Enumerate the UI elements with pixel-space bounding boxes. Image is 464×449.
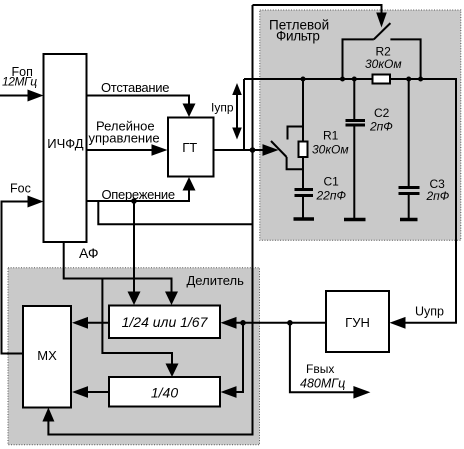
- wire drop from Опережение line to vertical bus: [98, 201, 252, 224]
- svg-text:C2: C2: [374, 106, 390, 120]
- svg-text:22пФ: 22пФ: [316, 189, 347, 203]
- wire filter main line and Uупр to ГУН: [244, 79, 456, 329]
- svg-text:МХ: МХ: [37, 348, 57, 363]
- svg-text:Fвых: Fвых: [306, 362, 334, 376]
- svg-text:R1: R1: [323, 129, 339, 143]
- wire АФ output (ИЧФД bottom to 1/24): [64, 242, 178, 305]
- wire Отставание (lag output to ГТ top): [87, 80, 196, 117]
- wire 1/40 output to МХ: [72, 386, 109, 398]
- svg-text:Отставание: Отставание: [101, 80, 169, 95]
- node Fвых branch: [287, 320, 293, 326]
- divider panel (Делитель): [8, 268, 260, 445]
- block divider 1/40: [109, 377, 220, 407]
- block ИЧФД (phase-frequency detector): [44, 54, 87, 242]
- node 1/40 branch: [240, 320, 246, 326]
- svg-text:ИЧФД: ИЧФД: [47, 136, 83, 151]
- wire branch to 1/40 input: [221, 323, 244, 398]
- node R2 right on main line: [418, 77, 423, 82]
- block ГУН (VCO): [326, 291, 389, 352]
- wire Fоп input: [0, 65, 44, 102]
- svg-text:12МГц: 12МГц: [2, 75, 37, 89]
- wire vertical bus (ГТ output down to МХ): [42, 5, 252, 435]
- svg-text:Опережение: Опережение: [102, 187, 175, 202]
- node C3 on main line: [406, 77, 411, 82]
- wire Iупр vertical (ГТ output up to filter line): [243, 79, 245, 150]
- svg-text:АФ: АФ: [79, 245, 99, 261]
- block divider 1/24 или 1/67: [109, 306, 220, 339]
- wire Опережение (lead output to ГТ bottom): [87, 177, 196, 202]
- loop filter panel (Петлевой Фильтр): [260, 10, 461, 240]
- resistor R2: [343, 39, 421, 83]
- svg-text:30кОм: 30кОм: [312, 143, 349, 157]
- svg-text:Fос: Fос: [10, 182, 31, 196]
- svg-text:1/40: 1/40: [151, 384, 178, 400]
- block ГТ (current generator): [168, 118, 214, 177]
- svg-text:Uупр: Uупр: [415, 305, 444, 319]
- node R1 branch on main line: [301, 77, 306, 82]
- node on Опережение line feeding divider: [131, 198, 137, 204]
- switch S1 (across R1): [271, 127, 303, 170]
- svg-text:30кОм: 30кОм: [365, 57, 402, 71]
- svg-text:2пФ: 2пФ: [426, 189, 450, 203]
- svg-text:Фильтр: Фильтр: [276, 28, 320, 43]
- resistor R1: [299, 79, 349, 188]
- node ГТ output / vertical bus: [250, 147, 256, 153]
- wire Релейное управление (relay control to ГТ): [87, 119, 168, 156]
- wire Fос feedback (МХ output to ИЧФД): [2, 182, 44, 354]
- node C2 on main line: [352, 77, 357, 82]
- svg-text:2пФ: 2пФ: [369, 120, 393, 134]
- capacitor C1: [294, 175, 347, 220]
- switch S2 (across R2): [374, 23, 391, 39]
- svg-text:ГУН: ГУН: [345, 315, 370, 330]
- svg-text:Делитель: Делитель: [187, 273, 245, 288]
- Iупр double arrow indicator: [211, 83, 242, 140]
- capacitor C2: [344, 79, 393, 220]
- svg-text:C1: C1: [324, 175, 340, 189]
- svg-text:ГТ: ГТ: [182, 140, 197, 155]
- wire АФ branch to 1/40: [102, 279, 178, 378]
- wire ГУН output to 1/24: [221, 317, 327, 329]
- wire top line (to R2 switch control): [253, 5, 387, 28]
- svg-text:480МГц: 480МГц: [300, 377, 345, 391]
- capacitor C3: [399, 79, 450, 220]
- wire Fвых output: [290, 323, 371, 399]
- node R2 left on main line: [340, 77, 345, 82]
- svg-text:1/24 или 1/67: 1/24 или 1/67: [122, 314, 209, 330]
- wire divider input 1 (to 1/24 block): [128, 201, 141, 305]
- wire ГТ output to filter (charge pump): [214, 144, 279, 156]
- block МХ (mixer): [23, 306, 71, 408]
- wire 1/24 output to МХ: [72, 317, 109, 329]
- svg-text:управление: управление: [89, 131, 160, 146]
- svg-text:Iупр: Iупр: [211, 101, 234, 115]
